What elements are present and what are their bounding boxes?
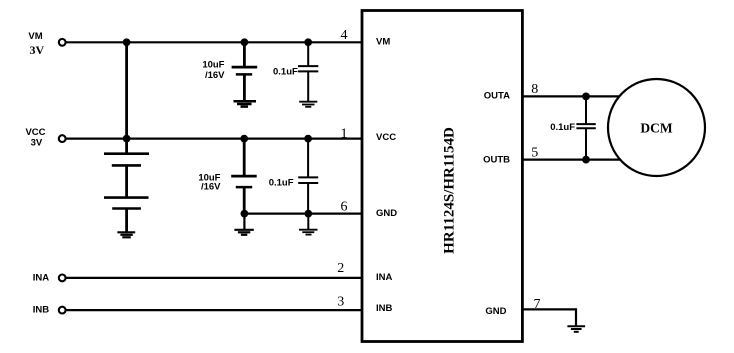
svg-text:4: 4 <box>341 28 348 43</box>
terminal VCC <box>59 135 66 142</box>
terminal VM <box>59 39 66 46</box>
op-amp U1 HR1124S/HR1154D body <box>362 11 522 342</box>
svg-text:5: 5 <box>531 146 538 161</box>
svg-text:HR1124S/HR1154D: HR1124S/HR1154D <box>441 127 457 254</box>
svg-text:/16V: /16V <box>201 182 221 193</box>
svg-text:10uF: 10uF <box>202 59 224 70</box>
svg-text:DCM: DCM <box>640 120 672 135</box>
wire C4 to ground <box>307 214 309 230</box>
capacitor C2 0.1uF <box>298 42 318 101</box>
junction OUTA/C5 <box>582 93 590 101</box>
junction VCC/C3 <box>240 135 248 143</box>
junction GND/C3 <box>241 210 249 218</box>
terminal INB <box>59 307 66 314</box>
ground battery <box>117 232 135 237</box>
svg-text:3: 3 <box>337 295 344 310</box>
svg-text:3V: 3V <box>31 138 43 149</box>
junction VCC/battery <box>123 135 131 143</box>
svg-text:VCC: VCC <box>376 132 396 143</box>
junction GND/C4 <box>304 210 312 218</box>
svg-text:GND: GND <box>376 208 397 219</box>
junction VCC/C4 <box>304 135 312 143</box>
svg-text:GND: GND <box>485 306 506 317</box>
wire C3 to ground <box>243 214 245 230</box>
wire GND rail <box>244 213 362 215</box>
svg-text:0.1uF: 0.1uF <box>273 67 298 78</box>
capacitor C5 0.1uF <box>576 96 595 159</box>
svg-text:INB: INB <box>33 305 50 316</box>
wire VM rail <box>66 41 362 43</box>
capacitor C1 10uF/16V <box>232 42 258 101</box>
wire OUTA <box>522 95 621 97</box>
svg-text:INA: INA <box>33 273 50 284</box>
capacitor C4 0.1uF <box>298 139 318 214</box>
wire INB <box>66 309 362 311</box>
svg-text:1: 1 <box>341 127 348 142</box>
wire OUTB <box>522 159 622 161</box>
svg-text:0.1uF: 0.1uF <box>550 122 575 133</box>
ground C1 <box>234 101 257 106</box>
ground C4 <box>299 230 318 235</box>
junction VM/C2 <box>304 38 312 46</box>
svg-text:/16V: /16V <box>205 70 225 81</box>
svg-text:0.1uF: 0.1uF <box>269 178 294 189</box>
wire VCC rail <box>66 138 362 140</box>
wire GND pin7 horizontal <box>522 308 576 310</box>
svg-text:8: 8 <box>531 82 538 97</box>
svg-text:VM: VM <box>376 37 390 48</box>
svg-text:OUTA: OUTA <box>484 91 510 102</box>
svg-text:6: 6 <box>341 200 348 215</box>
wire INA <box>66 277 362 279</box>
wire VM-to-VCC vertical <box>125 42 128 138</box>
battery BT1 <box>104 139 149 233</box>
ground pin7 <box>567 326 585 332</box>
svg-text:OUTB: OUTB <box>483 155 510 166</box>
svg-text:3V: 3V <box>29 43 44 57</box>
wire GND pin7 vertical <box>575 308 577 326</box>
svg-text:INA: INA <box>376 272 393 283</box>
ground C3 <box>234 230 253 235</box>
junction VM/C1 <box>241 38 249 46</box>
svg-text:VM: VM <box>28 31 42 42</box>
svg-text:2: 2 <box>337 261 344 276</box>
svg-text:INB: INB <box>376 303 393 314</box>
junction OUTB/C5 <box>582 156 590 164</box>
ground C2 <box>299 102 317 107</box>
capacitor C3 10uF/16V <box>231 139 257 214</box>
junction VM/battery <box>123 38 131 46</box>
terminal INA <box>59 275 66 282</box>
motor M1 DCM <box>608 79 705 176</box>
